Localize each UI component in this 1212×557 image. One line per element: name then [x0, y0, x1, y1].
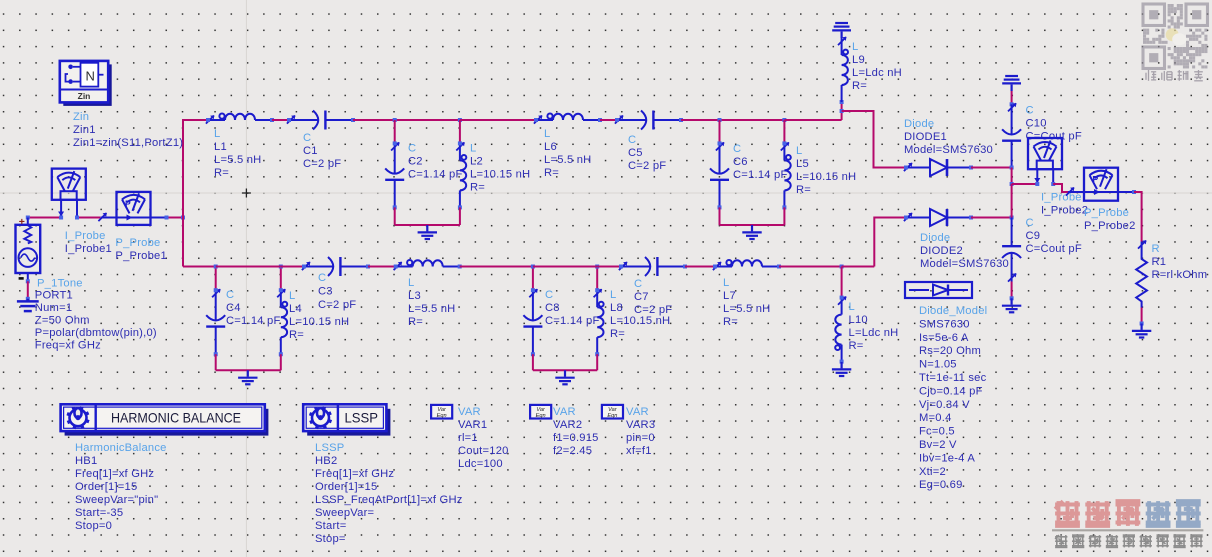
wechat contact text [1146, 70, 1203, 81]
wire I_Probe1 to P_Probe1 [77, 217, 100, 219]
wire junction to DIODE1 [842, 111, 906, 168]
svg-text:C10: C10 [1026, 118, 1047, 130]
wire L7 to L10 node [779, 266, 842, 268]
svg-text:R=: R= [408, 316, 423, 328]
inductor L6 [536, 114, 600, 121]
wire PORT1 to ground [27, 281, 29, 299]
svg-text:Zin1: Zin1 [73, 124, 96, 136]
svg-text:P_Probe2: P_Probe2 [1084, 220, 1136, 232]
svg-text:+: + [19, 216, 25, 228]
svg-text:C6: C6 [733, 156, 748, 168]
svg-text:VAR2: VAR2 [553, 419, 582, 431]
svg-text:Zin: Zin [73, 111, 89, 123]
svg-text:Cout=120: Cout=120 [458, 445, 509, 457]
current probe I_Probe2 [1028, 138, 1062, 169]
svg-text:LSSP_FreqAtPort[1]=xf GHz: LSSP_FreqAtPort[1]=xf GHz [315, 494, 463, 506]
svg-text:Stop=: Stop= [315, 533, 346, 545]
svg-text:f2=2.45: f2=2.45 [553, 445, 592, 457]
node input vertical wire [182, 119, 184, 267]
svg-text:L: L [723, 277, 729, 289]
svg-text:C=Cout pF: C=Cout pF [1026, 243, 1082, 255]
svg-text:Stop=0: Stop=0 [75, 520, 112, 532]
wire rail C8-L8 [533, 266, 597, 268]
svg-text:Eg=0.69: Eg=0.69 [919, 479, 963, 491]
ground PORT1 [17, 299, 39, 311]
ground shunt2 [742, 225, 761, 239]
svg-text:Diode_Model: Diode_Model [919, 305, 987, 317]
svg-text:L6: L6 [544, 141, 557, 153]
svg-text:R=rl kOhm: R=rl kOhm [1152, 269, 1208, 281]
svg-text:Start=-35: Start=-35 [75, 507, 123, 519]
svg-text:Rs=20 Ohm: Rs=20 Ohm [919, 345, 981, 357]
capacitor C4 shunt [215, 267, 217, 291]
wire node B to L6 [460, 119, 536, 121]
wire L1 to C1 [272, 119, 289, 121]
diode DIODE1 [906, 159, 971, 176]
ground bottom shunt1 [238, 370, 257, 384]
svg-text:I_Probe: I_Probe [1041, 192, 1082, 204]
svg-text:Ldc=100: Ldc=100 [458, 458, 503, 470]
svg-text:M=0.4: M=0.4 [919, 412, 952, 424]
svg-text:VAR: VAR [553, 406, 576, 418]
ground R1 [1132, 324, 1151, 338]
wire L10 node to corner [842, 266, 875, 268]
wire node A to node B [395, 119, 460, 121]
svg-text:Z=50 Ohm: Z=50 Ohm [35, 315, 90, 327]
svg-text:Zin1=zin(S11,PortZ1): Zin1=zin(S11,PortZ1) [73, 137, 183, 149]
svg-text:P_Probe: P_Probe [115, 237, 160, 249]
svg-text:C: C [545, 289, 553, 301]
svg-text:Order[1]=15: Order[1]=15 [315, 481, 377, 493]
svg-text:LSSP: LSSP [315, 442, 345, 454]
wire ground to C10 [1011, 91, 1013, 104]
svg-text:R=: R= [723, 316, 738, 328]
svg-text:C=2 pF: C=2 pF [628, 160, 666, 172]
svg-text:L=10.15 nH: L=10.15 nH [796, 171, 856, 183]
svg-text:LSSP: LSSP [345, 410, 379, 425]
wire I_Probe2 to P_Probe2 [1053, 184, 1068, 192]
svg-text:HB2: HB2 [315, 455, 337, 467]
measurement block Zin [63, 64, 111, 106]
inductor L8 shunt [596, 267, 598, 291]
svg-text:R=: R= [849, 340, 864, 352]
wire C7 to L7 [685, 266, 715, 268]
capacitor C6 shunt [719, 120, 721, 143]
svg-text:Freq=xf GHz: Freq=xf GHz [35, 340, 101, 352]
wire bottom shunt2 [533, 369, 597, 371]
svg-text:C: C [628, 134, 636, 146]
capacitor C9 [1002, 218, 1021, 282]
wire shunt2 bottom [720, 224, 785, 226]
svg-text:VAR3: VAR3 [626, 419, 655, 431]
svg-text:VAR: VAR [626, 406, 649, 418]
inductor L10 shunt [841, 267, 843, 298]
svg-text:SweepVar="pin": SweepVar="pin" [75, 494, 158, 506]
inductor L9 [842, 38, 848, 102]
svg-text:C=2 pF: C=2 pF [318, 299, 356, 311]
svg-text:C: C [733, 143, 741, 155]
wire C5 to node C [681, 119, 720, 121]
simulation block HARMONIC BALANCE [65, 409, 269, 436]
svg-text:N: N [86, 69, 95, 84]
svg-text:L=5.5 nH: L=5.5 nH [408, 303, 455, 315]
svg-text:L8: L8 [610, 302, 623, 314]
svg-text:L: L [610, 289, 616, 301]
svg-text:f1=0.915: f1=0.915 [553, 432, 599, 444]
capacitor C8 shunt [532, 267, 534, 291]
svg-text:C: C [408, 143, 416, 155]
variable block VAR3 [602, 405, 623, 419]
svg-text:L4: L4 [289, 303, 302, 315]
svg-text:Start=: Start= [315, 520, 346, 532]
svg-text:C=2 pF: C=2 pF [634, 304, 672, 316]
wire R1 to ground [1141, 308, 1143, 324]
wire rail C4-L4 [216, 266, 281, 268]
svg-text:L10: L10 [849, 314, 868, 326]
capacitor C7 [621, 257, 685, 276]
svg-text:C2: C2 [408, 156, 423, 168]
wire P_Probe2 to R1 [1134, 192, 1142, 242]
wire rail to L9 junction [841, 102, 843, 120]
svg-text:L=Ldc nH: L=Ldc nH [849, 327, 899, 339]
svg-text:xf=f1: xf=f1 [626, 445, 652, 457]
svg-text:L=10.15 nH: L=10.15 nH [610, 315, 670, 327]
svg-text:P: P [125, 198, 131, 208]
svg-text:L3: L3 [408, 290, 421, 302]
svg-text:Xti=2: Xti=2 [919, 466, 946, 478]
variable block VAR2 [530, 405, 551, 419]
wire P_Probe1 to input node [166, 217, 184, 219]
wire bottom rail segment 1 [183, 266, 216, 268]
ground top of L9 [832, 23, 851, 38]
simulation block LSSP [307, 409, 390, 436]
svg-text:L: L [852, 41, 858, 53]
svg-text:Eqn: Eqn [437, 413, 447, 419]
svg-text:R: R [1152, 243, 1160, 255]
svg-text:C5: C5 [628, 147, 643, 159]
svg-text:L7: L7 [723, 290, 736, 302]
capacitor C2 shunt [394, 120, 396, 143]
svg-text:L5: L5 [796, 158, 809, 170]
svg-text:L=5.5 nH: L=5.5 nH [544, 154, 591, 166]
svg-text:L: L [214, 128, 220, 140]
svg-text:pin=0: pin=0 [626, 432, 655, 444]
svg-text:R=: R= [470, 182, 485, 194]
wire bottom shunt1 [216, 369, 281, 371]
svg-text:L9: L9 [852, 54, 865, 66]
svg-text:L=5.5 nH: L=5.5 nH [723, 303, 770, 315]
capacitor C1 [289, 111, 353, 130]
svg-text:I_Probe: I_Probe [65, 230, 106, 242]
wire shunt1 bottom [395, 224, 460, 226]
capacitor C5 [617, 111, 681, 130]
svg-text:Diode: Diode [904, 118, 934, 130]
svg-text:L=10.15 nH: L=10.15 nH [470, 169, 530, 181]
svg-text:Tt=1e-11 sec: Tt=1e-11 sec [919, 372, 987, 384]
origin crosshair [242, 192, 251, 194]
svg-text:R=: R= [214, 167, 229, 179]
diode model block Diode_Model SMS7630 [905, 282, 972, 298]
svg-text:Model=SMS7630: Model=SMS7630 [920, 258, 1009, 270]
inductor L3 [396, 260, 460, 267]
svg-text:C8: C8 [545, 302, 560, 314]
svg-text:C=1.14 pF: C=1.14 pF [408, 169, 463, 181]
svg-text:L=Ldc nH: L=Ldc nH [852, 67, 902, 79]
wire L6 to C5 [600, 119, 617, 121]
svg-text:C=1.14 pF: C=1.14 pF [733, 169, 788, 181]
wire top rail segment 1 [183, 119, 209, 121]
ground L10 [832, 362, 851, 376]
svg-text:C: C [634, 278, 642, 290]
ground bottom shunt2 [555, 370, 574, 384]
ground C9 [1002, 298, 1021, 312]
yiditop training watermark big [1055, 501, 1080, 526]
svg-text:Zin: Zin [78, 91, 91, 101]
svg-text:Freq[1]=xf GHz: Freq[1]=xf GHz [75, 468, 154, 480]
capacitor C3 [304, 257, 368, 276]
wire DIODE2 to C9 node [971, 217, 1012, 219]
svg-text:C=2 pF: C=2 pF [303, 158, 341, 170]
variable block VAR1 [431, 405, 452, 419]
svg-text:Ibv=1e-4 A: Ibv=1e-4 A [919, 452, 975, 464]
svg-text:L: L [849, 301, 855, 313]
svg-text:Model=SMS7630: Model=SMS7630 [904, 144, 993, 156]
wire node C to node D [720, 119, 785, 121]
inductor L2 shunt [459, 120, 461, 143]
svg-text:PORT1: PORT1 [35, 290, 73, 302]
wire from PORT1 to I_Probe1 [28, 217, 61, 219]
inductor L7 [715, 260, 779, 267]
svg-text:HARMONIC BALANCE: HARMONIC BALANCE [111, 410, 241, 425]
svg-text:I_Probe2: I_Probe2 [1041, 205, 1088, 217]
svg-text:Eqn: Eqn [536, 413, 546, 419]
inductor L1 [208, 114, 272, 121]
power probe P_Probe2 [1084, 168, 1118, 201]
wire DIODE1 to C10 node [971, 167, 1012, 169]
wire C9 to ground [1011, 282, 1013, 299]
svg-text:C4: C4 [226, 302, 241, 314]
svg-text:C1: C1 [303, 145, 318, 157]
svg-text:L: L [544, 128, 550, 140]
resistor R1 [1136, 242, 1147, 308]
svg-text:C3: C3 [318, 286, 333, 298]
svg-text:Fc=0.5: Fc=0.5 [919, 426, 955, 438]
svg-text:DIODE2: DIODE2 [920, 245, 963, 257]
ground top of C10 [1002, 76, 1021, 91]
svg-text:SweepVar=: SweepVar= [315, 507, 374, 519]
wire corner to DIODE2 [874, 218, 906, 267]
svg-text:C: C [303, 132, 311, 144]
svg-text:Cjo=0.14 pF: Cjo=0.14 pF [919, 385, 983, 397]
svg-text:L: L [796, 145, 802, 157]
inductor L4 shunt [280, 267, 282, 291]
svg-text:C: C [1026, 105, 1034, 117]
svg-text:L: L [408, 277, 414, 289]
svg-text:Diode: Diode [920, 232, 950, 244]
svg-text:R=: R= [610, 328, 625, 340]
QR code watermark [1143, 4, 1207, 68]
diode DIODE2 [906, 209, 971, 226]
svg-text:SMS7630: SMS7630 [919, 318, 970, 330]
svg-text:DIODE1: DIODE1 [904, 131, 947, 143]
svg-text:VAR: VAR [458, 406, 481, 418]
svg-text:L1: L1 [214, 141, 227, 153]
svg-text:R=: R= [852, 80, 867, 92]
svg-text:C: C [226, 289, 234, 301]
svg-text:C: C [1026, 217, 1034, 229]
svg-text:P=polar(dbmtow(pin),0): P=polar(dbmtow(pin),0) [35, 327, 157, 339]
wire L8 to C7 [597, 266, 621, 268]
svg-text:P_Probe1: P_Probe1 [115, 250, 167, 262]
svg-text:C=1.14 pF: C=1.14 pF [226, 315, 281, 327]
svg-text:C7: C7 [634, 291, 649, 303]
svg-text:VAR1: VAR1 [458, 419, 487, 431]
svg-text:R=: R= [289, 329, 304, 341]
wire L4 to C3 [281, 266, 304, 268]
svg-text:C=1.14 pF: C=1.14 pF [545, 315, 600, 327]
wire node D to corner [784, 119, 841, 121]
svg-text:P_1Tone: P_1Tone [37, 278, 83, 290]
svg-text:Bv=2 V: Bv=2 V [919, 439, 957, 451]
svg-text:Freq[1]=xf GHz: Freq[1]=xf GHz [315, 468, 394, 480]
svg-text:Vj=0.34 V: Vj=0.34 V [919, 399, 970, 411]
svg-text:Num=1: Num=1 [35, 302, 72, 314]
wire C10 node down to I_Probe2 [1011, 168, 1013, 185]
svg-text:Is=5e-6 A: Is=5e-6 A [919, 332, 969, 344]
current probe I_Probe1 [52, 169, 86, 200]
svg-text:P_Probe: P_Probe [1084, 207, 1129, 219]
svg-text:HarmonicBalance: HarmonicBalance [75, 442, 167, 454]
svg-text:L=10.15 nH: L=10.15 nH [289, 316, 349, 328]
svg-text:Eqn: Eqn [607, 413, 617, 419]
svg-text:C=Cout pF: C=Cout pF [1026, 131, 1082, 143]
svg-text:HB1: HB1 [75, 455, 97, 467]
svg-text:L2: L2 [470, 156, 483, 168]
wire L3 to C8 node [460, 266, 533, 268]
capacitor C10 [1002, 104, 1021, 168]
wire I_Probe2 node to C9 [1011, 184, 1013, 218]
sheet guide lines [245, 0, 247, 557]
svg-text:C: C [318, 272, 326, 284]
wire C3 to L3 [368, 266, 396, 268]
svg-text:Order[1]=15: Order[1]=15 [75, 481, 137, 493]
svg-text:L: L [470, 143, 476, 155]
yiditop training watermark small [1055, 535, 1067, 547]
svg-text:P: P [1093, 174, 1099, 184]
svg-text:R=: R= [544, 167, 559, 179]
wire C1 to node A [353, 119, 395, 121]
svg-text:N=1.05: N=1.05 [919, 359, 957, 371]
wire to I_Probe2 pin1 [1012, 183, 1037, 185]
svg-text:L: L [289, 290, 295, 302]
svg-text:rl=1: rl=1 [458, 432, 478, 444]
svg-text:R=: R= [796, 184, 811, 196]
power probe P_Probe1 [117, 192, 151, 225]
svg-text:R1: R1 [1152, 256, 1167, 268]
ground shunt1 [418, 225, 437, 239]
svg-text:C9: C9 [1026, 230, 1041, 242]
inductor L5 shunt [783, 120, 785, 143]
source P_1Tone PORT1 [16, 225, 41, 273]
svg-text:L=5.5 nH: L=5.5 nH [214, 154, 261, 166]
svg-text:I_Probe1: I_Probe1 [65, 243, 112, 255]
